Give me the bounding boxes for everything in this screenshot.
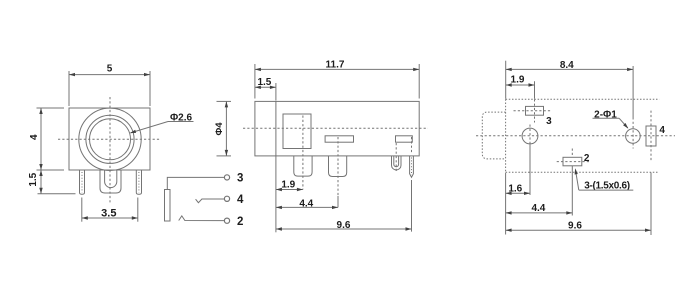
svg-text:9.6: 9.6 — [568, 220, 582, 231]
svg-text:1.5: 1.5 — [257, 77, 271, 88]
svg-text:4.4: 4.4 — [531, 203, 545, 214]
svg-text:3: 3 — [546, 116, 552, 127]
svg-text:4: 4 — [237, 194, 244, 206]
svg-text:1.9: 1.9 — [511, 75, 525, 86]
svg-text:2: 2 — [584, 153, 590, 164]
svg-text:3: 3 — [237, 173, 243, 185]
svg-text:2-Φ1: 2-Φ1 — [594, 110, 617, 121]
svg-text:9.6: 9.6 — [337, 220, 351, 231]
svg-text:5: 5 — [107, 64, 113, 75]
svg-text:8.4: 8.4 — [560, 60, 574, 71]
svg-text:1.5: 1.5 — [28, 172, 39, 186]
svg-text:2: 2 — [237, 216, 243, 228]
svg-text:4.4: 4.4 — [299, 198, 313, 209]
svg-text:Φ4: Φ4 — [214, 122, 225, 136]
svg-text:1.6: 1.6 — [508, 183, 522, 194]
svg-text:1.9: 1.9 — [281, 180, 295, 191]
svg-text:11.7: 11.7 — [326, 59, 345, 70]
svg-text:3.5: 3.5 — [101, 208, 116, 220]
svg-text:4: 4 — [29, 134, 40, 140]
svg-text:4: 4 — [659, 125, 665, 136]
